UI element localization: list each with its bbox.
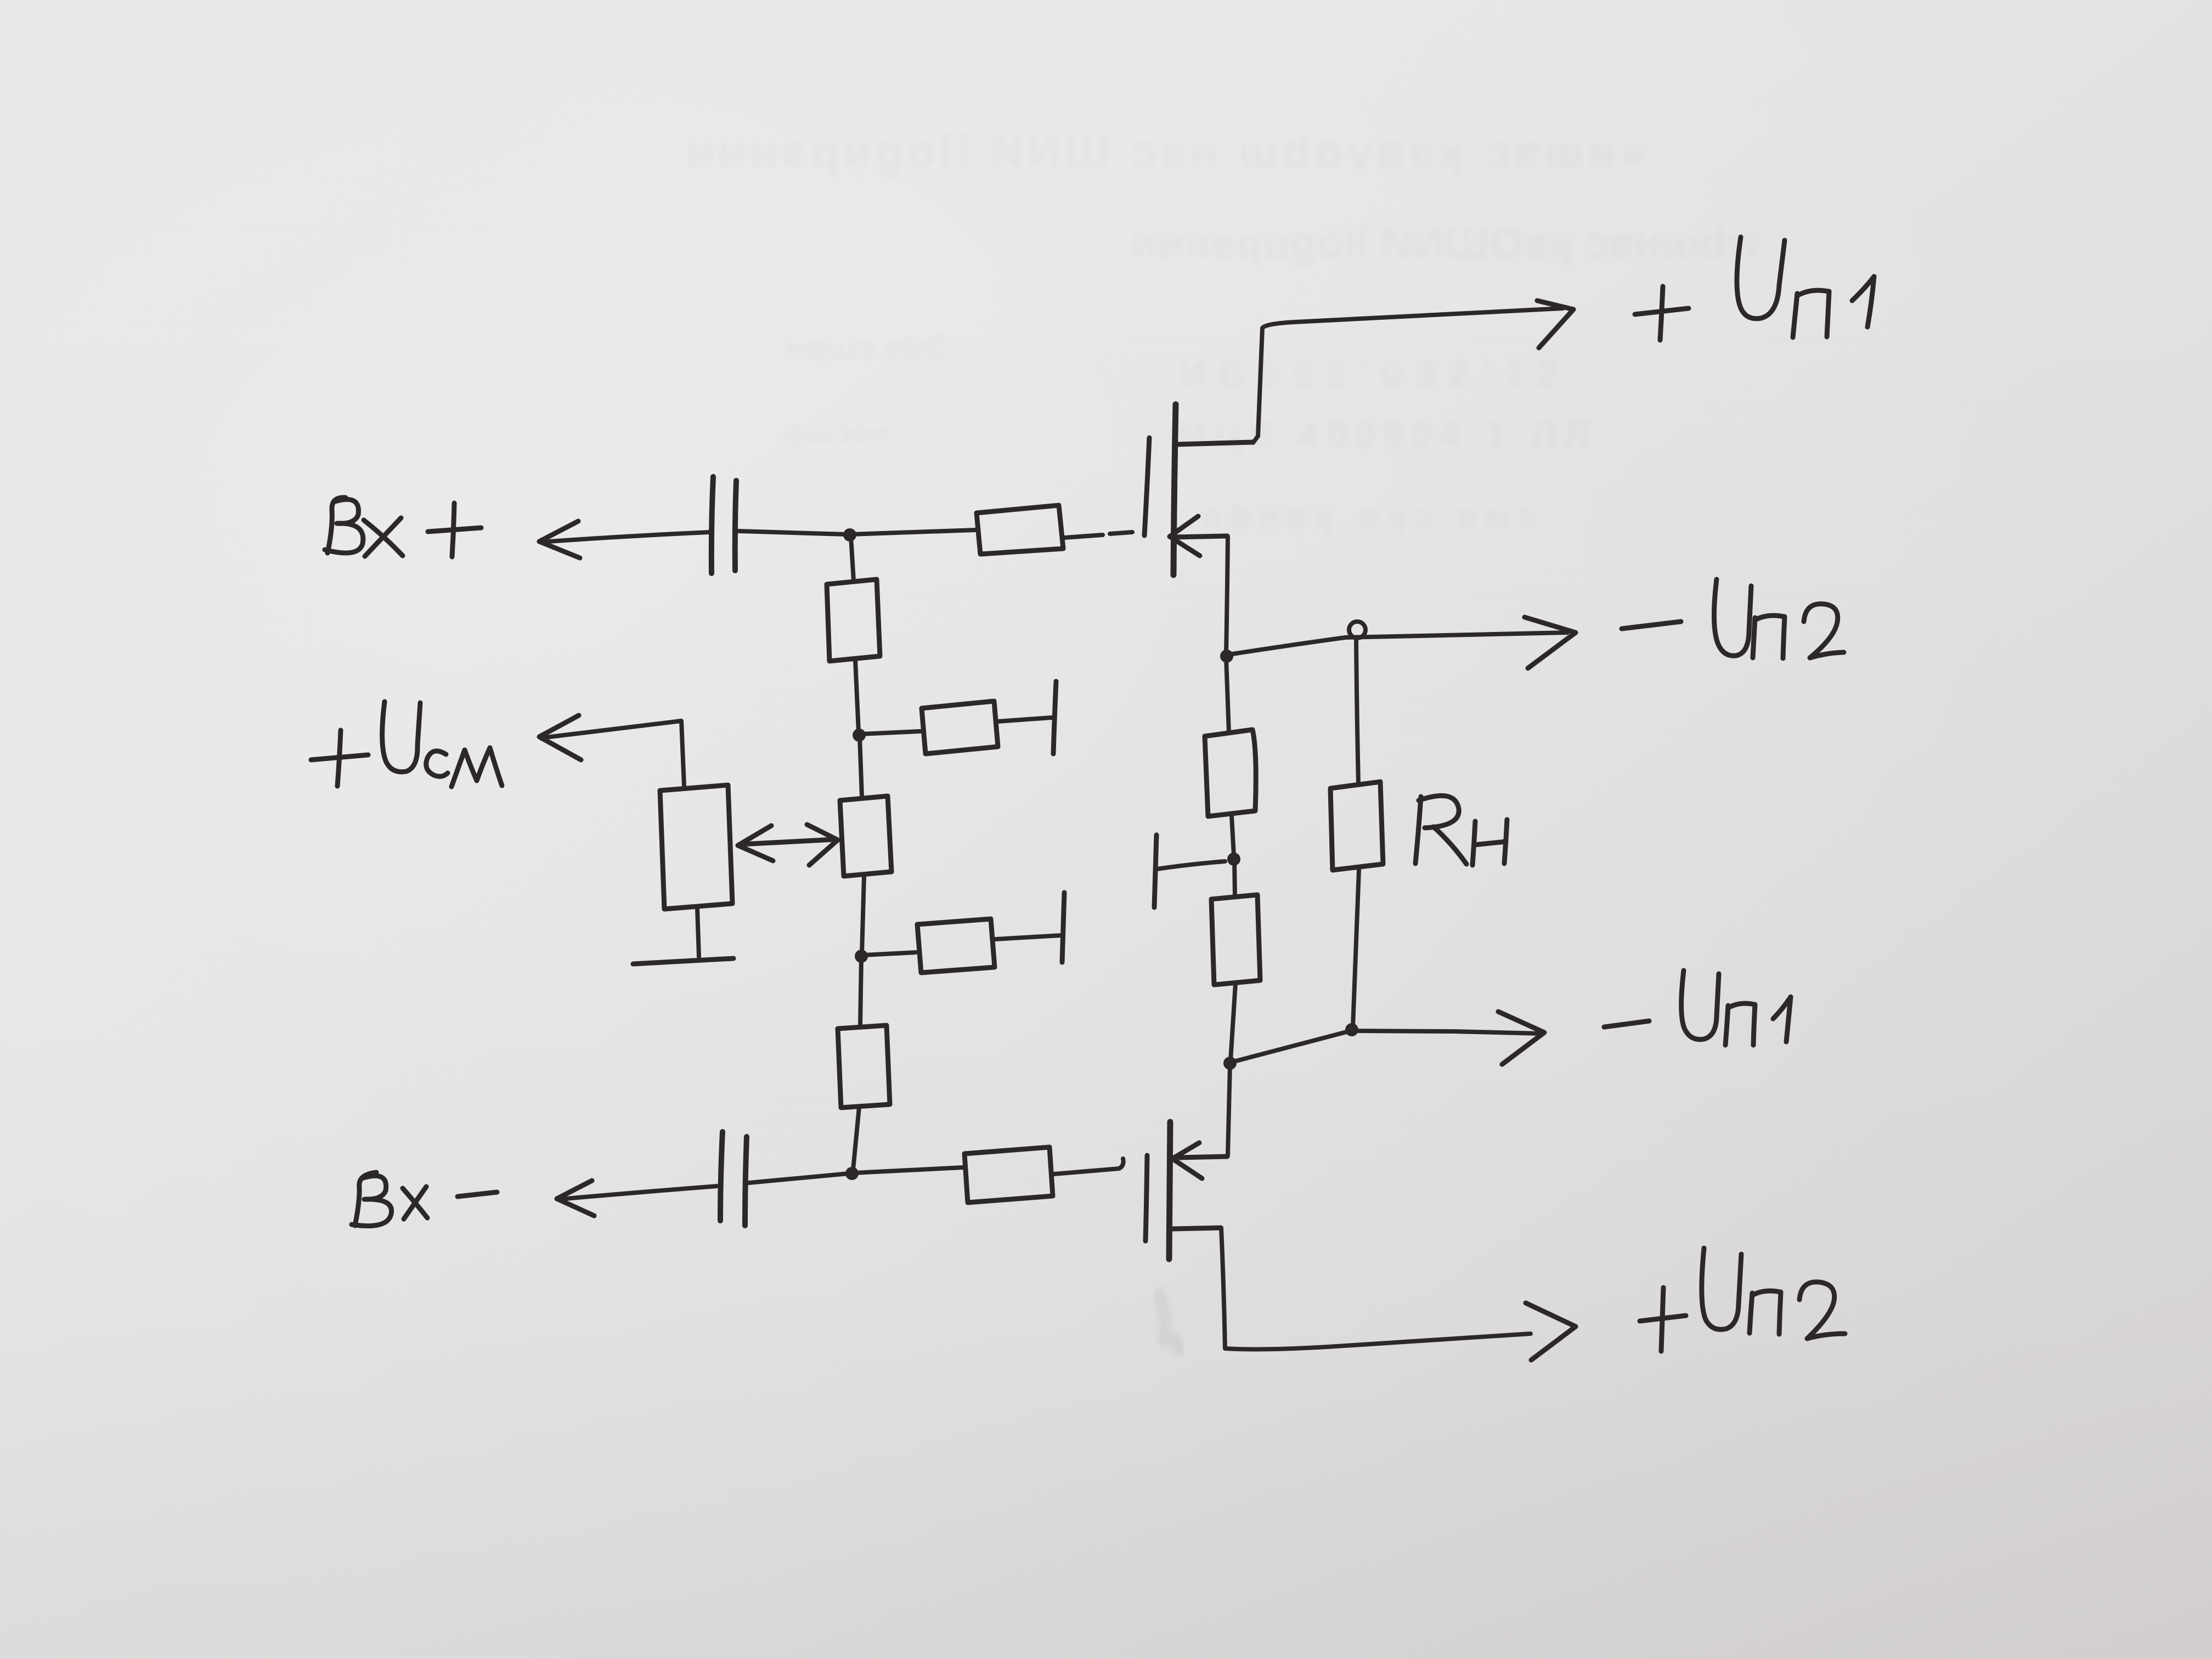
svg-text:иинequgoll NИШОɐʞ ɔɐнɯdw: иинequgoll NИШОɐʞ ɔɐнɯdw [1130, 218, 1762, 267]
svg-text:иинеqиgоll NИШ ɔɐн ɯdоvвɐʞ ɔɐɯ: иинеqиgоll NИШ ɔɐн ɯdоvвɐʞ ɔɐɯн» [686, 126, 1646, 177]
wire +Ucm arrow to P1 [541, 721, 684, 786]
resistor R9 [917, 919, 995, 973]
label Bx- [352, 1172, 497, 1226]
arrow +Un2 [1526, 1303, 1576, 1360]
resistor R5 [922, 701, 998, 754]
node G junction [853, 729, 866, 742]
wire node D to R8 [1234, 860, 1235, 896]
wire node E down to Q2 drain [1228, 1065, 1230, 1155]
wire R4 to Q2 gate with hook [1054, 1159, 1124, 1174]
label -Un1 [1604, 970, 1791, 1045]
trimmer coupling double arrow [738, 825, 838, 865]
resistor R7 [1205, 730, 1256, 816]
arrow to Bx+ [539, 521, 580, 558]
arrow to Bx- [557, 1181, 594, 1216]
node B junction [1220, 650, 1233, 663]
transistor Q1 [1144, 404, 1252, 575]
terminal T1 bar [1053, 681, 1056, 754]
wire node F to R4 [854, 1167, 963, 1173]
node F junction [845, 1167, 859, 1180]
wire -Un1 from node E through node C to arrow [1232, 1031, 1542, 1062]
ground bar [633, 958, 733, 964]
gate tap Q3 lead [1157, 861, 1225, 869]
wire Q1 source down to node B [1226, 537, 1228, 654]
wire node H down to R10 [860, 958, 861, 1025]
wire R5 to terminal T1 [998, 718, 1052, 721]
potentiometer P1 [660, 785, 732, 909]
arrow to +Ucm [539, 715, 581, 760]
resistor R8 [1211, 895, 1260, 985]
resistor R3 [977, 505, 1063, 554]
wire Bx- arrow to C2 [559, 1186, 717, 1199]
wire C2 to node F [749, 1173, 849, 1183]
label +Ucm [311, 702, 502, 787]
pen loop [1349, 622, 1365, 638]
wire Rn to node C [1353, 870, 1359, 1027]
arrow -Un2 [1525, 617, 1576, 668]
wire R2 to node G [855, 660, 859, 732]
wire P1 to ground [697, 909, 699, 957]
wire Bx+ arrow to C1 [540, 532, 710, 542]
resistor R6 (trimmed) [840, 796, 891, 876]
node H junction [855, 950, 868, 963]
resistor Rn [1330, 782, 1383, 870]
wire node G to R5 [861, 731, 920, 734]
arrow -Un1 [1498, 1012, 1544, 1064]
wire loop down to Rn [1356, 637, 1358, 783]
arrow +Un1 [1537, 301, 1573, 348]
ink drawing [311, 237, 1874, 1360]
wire R6 to node H [862, 876, 864, 953]
transistor Q2 [1145, 1122, 1227, 1259]
wire node G down to R6 [860, 737, 862, 797]
label -Un2 [1622, 579, 1844, 658]
faint smudge below Q2 [1158, 1289, 1180, 1355]
resistor R4 [964, 1147, 1053, 1203]
svg-text:нqɯɔ ɐɓЄ: нqɯɔ ɐɓЄ [785, 329, 949, 367]
wire Q1 drain to +Un1 [1253, 308, 1563, 443]
node C junction [1345, 1023, 1358, 1036]
node A junction [843, 528, 856, 541]
wire R3 to Q1 gate (broken stroke) [1065, 532, 1132, 538]
wire R9 to terminal T2 [995, 935, 1060, 939]
resistor R10 [838, 1025, 890, 1108]
capacitor C1 [712, 477, 736, 573]
label Bx+ [325, 498, 481, 557]
wire node A down to R2 [851, 537, 854, 581]
resistor R2 [827, 579, 880, 661]
terminal T2 bar [1062, 893, 1064, 962]
wire R7 to node D [1232, 816, 1234, 855]
wire R8 to node E [1231, 984, 1235, 1060]
label +Un2 [1640, 1248, 1845, 1351]
wire node H to R9 [863, 952, 916, 955]
node E junction [1223, 1057, 1237, 1070]
wire R10 to node F [853, 1107, 859, 1170]
faint show-through from reverse side [686, 126, 1975, 595]
wire node B down to R7 [1226, 658, 1229, 733]
label +Un1 [1635, 237, 1874, 340]
svg-text:qɯɔон: qɯɔон [785, 415, 889, 450]
wire C1 to node A [738, 531, 846, 534]
wire node B to -Un2 arrow [1229, 633, 1567, 654]
label Rn [1415, 795, 1507, 865]
node D junction [1227, 853, 1240, 866]
gate tap Q3 bar [1154, 835, 1156, 907]
wire node A to R3 [851, 530, 975, 534]
capacitor C2 [720, 1132, 747, 1226]
wire Q2 source to +Un2 [1221, 1228, 1531, 1349]
